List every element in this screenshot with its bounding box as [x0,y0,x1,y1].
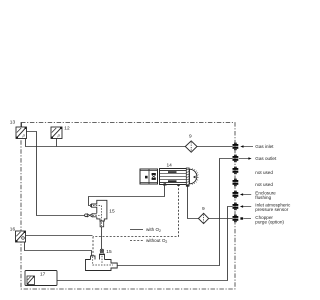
svg-text:with O2: with O2 [146,227,161,233]
svg-text:purge (option): purge (option) [255,219,284,224]
svg-text:not used: not used [255,182,273,187]
svg-text:Gas outlet: Gas outlet [255,156,277,161]
svg-text:17: 17 [40,271,46,277]
svg-text:flushing: flushing [255,195,271,200]
svg-text:9: 9 [202,206,205,212]
svg-text:15: 15 [106,249,112,255]
svg-text:pressure sensor: pressure sensor [255,207,288,212]
svg-text:14: 14 [167,162,173,168]
svg-text:not used: not used [255,170,273,175]
svg-text:16: 16 [10,227,16,233]
svg-text:13: 13 [10,119,16,125]
svg-text:15: 15 [109,208,115,214]
svg-text:without O2: without O2 [146,238,167,244]
svg-text:9: 9 [189,134,192,140]
svg-text:Gas inlet: Gas inlet [255,144,274,149]
svg-text:12: 12 [64,125,70,131]
